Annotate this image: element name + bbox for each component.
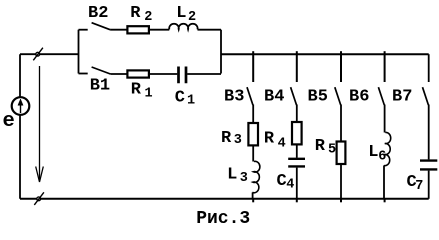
svg-text:L: L [176, 4, 186, 23]
wire L2 to right bracket [198, 29, 222, 31]
wire C1 to right bracket [187, 73, 221, 75]
junction tick B5 bottom [340, 199, 342, 203]
wire L3 to bottom bus [252, 192, 254, 198]
capacitor C1 plates [179, 67, 187, 84]
svg-text:L: L [368, 143, 378, 162]
svg-text:B4: B4 [264, 88, 284, 107]
resistor R1 [127, 70, 148, 77]
switch B1 blade [92, 67, 111, 74]
wire C7 to bottom bus [428, 171, 430, 199]
svg-text:B7: B7 [392, 88, 412, 107]
resistor R3 [248, 123, 258, 145]
branch B4: junction tick + stub [296, 51, 298, 82]
svg-text:6: 6 [378, 150, 386, 165]
svg-text:R: R [264, 129, 275, 148]
capacitor C4 plates [288, 159, 305, 167]
wire blade to R3 [252, 105, 254, 124]
left bracket node [78, 30, 80, 74]
wire blade to C7 [428, 105, 430, 160]
right bracket node [220, 30, 222, 74]
branch B5: junction tick + stub [340, 51, 342, 82]
svg-text:B2: B2 [88, 4, 108, 23]
svg-text:4: 4 [286, 178, 294, 193]
wire top-left horizontal from source to bracket [20, 53, 79, 55]
branch B6: junction tick + stub [384, 51, 386, 82]
svg-text:3: 3 [234, 133, 242, 148]
source E1 circle [12, 97, 30, 115]
wire C4 to bottom bus [296, 168, 298, 199]
wire R4 to C4 [296, 144, 298, 157]
source arrow up [18, 99, 23, 113]
svg-text:R: R [221, 129, 232, 148]
wire blade to R4 [296, 105, 298, 123]
switch B5 blade [335, 87, 341, 105]
svg-text:3: 3 [240, 171, 248, 186]
svg-text:e: e [3, 110, 15, 133]
switch B3 blade [247, 87, 253, 105]
switch B1 stub wire [79, 73, 88, 75]
switch B2 stub wire [79, 29, 88, 31]
wire blade to R2 [110, 29, 127, 31]
switch B6 blade [378, 87, 384, 105]
switch B2 blade [92, 23, 111, 30]
wire R3 to L3 [252, 145, 254, 161]
svg-text:Рис.3: Рис.3 [196, 209, 250, 227]
left vertical wire [19, 54, 21, 199]
break mark (circle+slash) on bottom bus [34, 192, 44, 205]
top bus wire [221, 53, 429, 55]
switch B4 blade [291, 87, 297, 105]
resistor R4 [292, 122, 302, 144]
wire R1 to C1 [149, 73, 177, 75]
resistor R5 [337, 142, 346, 165]
svg-text:B5: B5 [308, 88, 328, 107]
svg-text:7: 7 [415, 179, 423, 194]
resistor R2 [127, 26, 148, 33]
svg-text:1: 1 [187, 94, 195, 109]
svg-text:R: R [130, 4, 141, 23]
svg-text:R: R [131, 80, 142, 99]
inductor L3 [252, 161, 259, 192]
inductor L2 [169, 24, 197, 30]
current direction arrow (down) [36, 66, 44, 182]
svg-text:C: C [277, 172, 287, 191]
switch B7 blade [423, 87, 429, 105]
svg-text:1: 1 [145, 86, 153, 101]
wire R5 to bottom bus [340, 164, 342, 199]
svg-text:R: R [315, 137, 326, 156]
wire blade to R5 [340, 105, 342, 142]
svg-text:B1: B1 [90, 76, 110, 95]
break mark (circle+slash) on top wire [33, 48, 43, 61]
svg-text:2: 2 [188, 10, 196, 25]
svg-text:B3: B3 [224, 88, 244, 107]
svg-text:L: L [227, 166, 237, 185]
svg-text:2: 2 [144, 10, 152, 25]
svg-text:B6: B6 [349, 88, 369, 107]
wire blade to L6 [384, 105, 386, 133]
svg-text:C: C [175, 89, 185, 108]
inductor L6 [384, 132, 391, 165]
junction tick B6 bottom [384, 199, 386, 203]
junction tick B4 bottom [296, 199, 298, 203]
junction tick B3 bottom [252, 199, 254, 203]
svg-text:4: 4 [278, 137, 286, 152]
bottom bus wire [20, 198, 429, 200]
svg-text:5: 5 [328, 143, 336, 158]
branch B7: stub from bus end corner [428, 54, 430, 82]
capacitor C7 plates [420, 161, 437, 170]
wire L6 to bottom bus [383, 166, 385, 199]
branch B3: junction tick + stub [252, 51, 254, 82]
wire R2 to L2 [149, 29, 169, 31]
wire blade to R1 [110, 73, 127, 75]
